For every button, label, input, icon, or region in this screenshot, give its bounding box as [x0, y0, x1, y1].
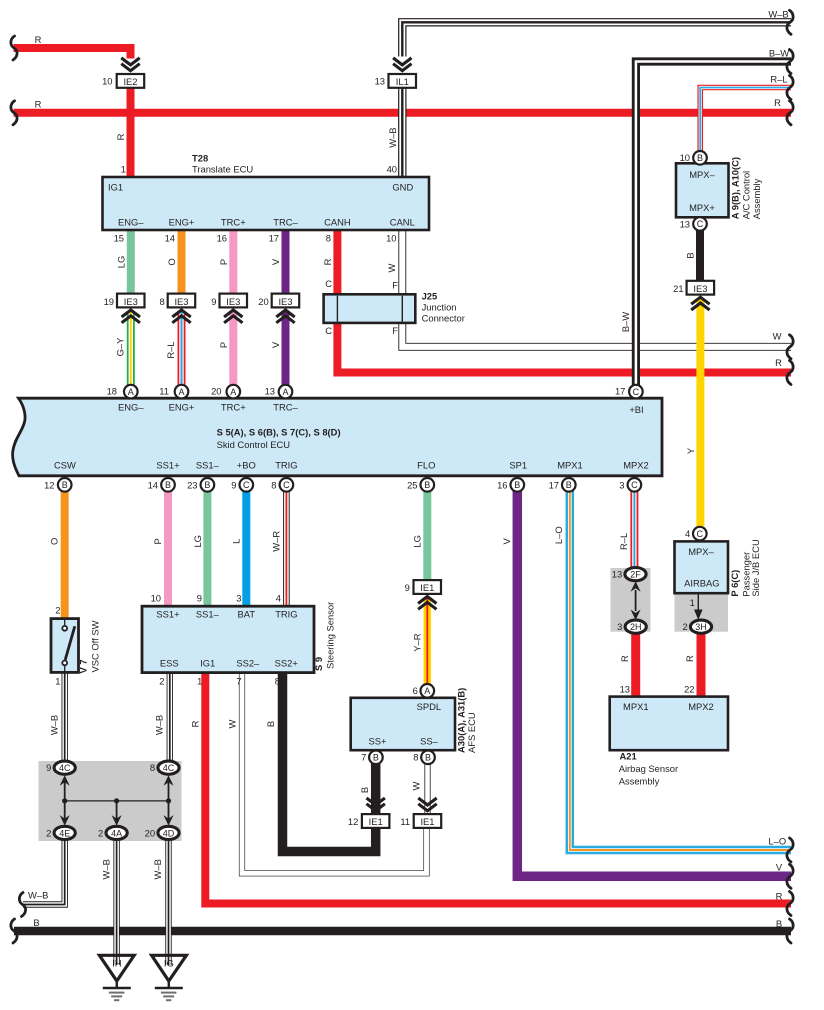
svg-text:9: 9 — [197, 593, 202, 604]
svg-text:SS–: SS– — [420, 735, 439, 746]
svg-text:9: 9 — [211, 296, 216, 307]
svg-text:R: R — [684, 655, 695, 662]
svg-text:W–B: W–B — [152, 859, 163, 879]
svg-text:Junction: Junction — [422, 302, 457, 313]
svg-text:Side J/B ECU: Side J/B ECU — [750, 539, 761, 597]
svg-text:11: 11 — [400, 816, 410, 827]
svg-text:C: C — [697, 219, 704, 229]
svg-text:L–O: L–O — [553, 526, 564, 544]
svg-text:MPX+: MPX+ — [689, 202, 715, 213]
svg-text:B: B — [697, 153, 703, 163]
svg-text:10: 10 — [386, 233, 396, 244]
svg-text:7: 7 — [236, 676, 241, 687]
svg-text:IE3: IE3 — [693, 283, 707, 294]
svg-text:MPX1: MPX1 — [623, 701, 649, 712]
svg-text:R: R — [775, 357, 782, 368]
svg-text:B: B — [33, 917, 39, 928]
svg-text:J25: J25 — [422, 291, 438, 302]
svg-text:1: 1 — [690, 597, 695, 608]
svg-text:8: 8 — [150, 762, 155, 773]
svg-text:V: V — [270, 341, 281, 348]
svg-text:IE2: IE2 — [123, 76, 137, 87]
svg-text:W: W — [227, 719, 238, 728]
svg-text:8: 8 — [326, 233, 331, 244]
svg-text:20: 20 — [145, 827, 155, 838]
svg-text:B: B — [359, 787, 370, 793]
svg-text:IE3: IE3 — [174, 296, 188, 307]
svg-text:MPX–: MPX– — [689, 169, 715, 180]
svg-text:13: 13 — [612, 568, 622, 579]
svg-text:21: 21 — [673, 283, 683, 294]
svg-text:9: 9 — [231, 479, 236, 490]
svg-text:Assembly: Assembly — [751, 178, 762, 219]
svg-text:3: 3 — [236, 593, 241, 604]
svg-text:BAT: BAT — [238, 609, 256, 620]
svg-text:T28: T28 — [192, 153, 208, 164]
svg-text:IE3: IE3 — [226, 296, 240, 307]
svg-text:4E: 4E — [59, 828, 70, 838]
svg-text:P 6(C): P 6(C) — [729, 570, 740, 597]
svg-text:R: R — [190, 720, 201, 727]
svg-text:8: 8 — [271, 479, 276, 490]
svg-text:2: 2 — [682, 621, 687, 632]
svg-text:P: P — [152, 538, 163, 544]
svg-text:A: A — [230, 387, 236, 397]
svg-text:IH: IH — [112, 958, 121, 969]
svg-text:15: 15 — [114, 233, 124, 244]
svg-text:4D: 4D — [163, 828, 175, 838]
svg-text:22: 22 — [684, 683, 694, 694]
svg-text:SS1+: SS1+ — [156, 609, 180, 620]
svg-text:Steering Sensor: Steering Sensor — [324, 602, 335, 669]
svg-text:GND: GND — [392, 182, 413, 193]
svg-text:6: 6 — [413, 685, 418, 696]
svg-text:IG1: IG1 — [200, 658, 215, 669]
svg-text:IG: IG — [164, 958, 174, 969]
svg-text:B: B — [204, 480, 210, 490]
svg-text:B: B — [265, 721, 276, 727]
svg-text:V: V — [776, 861, 783, 872]
svg-text:IE3: IE3 — [124, 296, 138, 307]
svg-text:4C: 4C — [163, 763, 175, 773]
svg-text:SS1+: SS1+ — [156, 460, 180, 471]
svg-text:LG: LG — [115, 256, 126, 269]
svg-text:TRC–: TRC– — [273, 217, 298, 228]
svg-text:R–L: R–L — [770, 74, 787, 85]
svg-text:12: 12 — [44, 479, 54, 490]
svg-text:3H: 3H — [695, 622, 707, 632]
svg-text:VSC Off SW: VSC Off SW — [89, 620, 100, 672]
svg-text:40: 40 — [387, 164, 397, 175]
svg-text:3: 3 — [619, 479, 624, 490]
svg-text:10: 10 — [102, 76, 112, 87]
svg-text:B: B — [373, 753, 379, 763]
svg-text:Translate ECU: Translate ECU — [192, 164, 253, 175]
svg-text:A/C Control: A/C Control — [740, 171, 751, 219]
svg-text:B: B — [424, 480, 430, 490]
svg-text:2: 2 — [98, 827, 103, 838]
svg-text:R: R — [774, 97, 781, 108]
svg-text:1: 1 — [121, 164, 126, 175]
svg-text:Y: Y — [685, 447, 696, 454]
svg-text:ENG+: ENG+ — [169, 217, 195, 228]
svg-text:SP1: SP1 — [509, 460, 527, 471]
svg-text:CSW: CSW — [54, 460, 76, 471]
svg-text:V: V — [501, 537, 512, 544]
svg-text:W–B: W–B — [387, 127, 398, 147]
svg-text:AFS ECU: AFS ECU — [466, 712, 477, 753]
svg-text:W: W — [773, 331, 782, 342]
svg-text:8: 8 — [275, 676, 280, 687]
svg-text:4A: 4A — [111, 828, 122, 838]
svg-text:W–B: W–B — [100, 859, 111, 879]
svg-text:A: A — [424, 686, 430, 696]
svg-text:C: C — [633, 387, 640, 397]
svg-text:TRC–: TRC– — [273, 402, 298, 413]
svg-text:R: R — [35, 34, 42, 45]
svg-text:C: C — [325, 325, 332, 336]
svg-text:R: R — [322, 258, 333, 265]
svg-text:S 5(A), S 6(B), S 7(C), S 8(D): S 5(A), S 6(B), S 7(C), S 8(D) — [217, 427, 341, 438]
svg-text:Connector: Connector — [422, 313, 465, 324]
svg-text:A: A — [128, 387, 134, 397]
svg-text:L–O: L–O — [768, 836, 786, 847]
svg-text:V: V — [270, 258, 281, 265]
svg-text:C: C — [243, 480, 250, 490]
svg-text:B: B — [62, 480, 68, 490]
svg-text:B: B — [165, 480, 171, 490]
svg-text:A 9(B), A10(C): A 9(B), A10(C) — [730, 157, 741, 219]
svg-text:10: 10 — [151, 593, 161, 604]
svg-text:B: B — [776, 918, 782, 929]
svg-text:MPX2: MPX2 — [623, 460, 649, 471]
svg-text:R–L: R–L — [165, 341, 176, 358]
svg-text:A: A — [178, 387, 184, 397]
svg-text:MPX1: MPX1 — [557, 460, 583, 471]
svg-text:W–B: W–B — [49, 715, 60, 735]
svg-text:S 9: S 9 — [313, 657, 324, 671]
svg-text:W: W — [386, 263, 397, 272]
svg-text:LG: LG — [411, 535, 422, 548]
svg-text:13: 13 — [265, 386, 275, 397]
svg-text:+BO: +BO — [237, 460, 256, 471]
svg-text:Skid Control ECU: Skid Control ECU — [217, 439, 291, 450]
svg-text:TRC+: TRC+ — [221, 217, 246, 228]
svg-text:LG: LG — [192, 535, 203, 548]
svg-text:2H: 2H — [630, 622, 642, 632]
svg-text:C: C — [325, 278, 332, 289]
svg-text:8: 8 — [159, 296, 164, 307]
svg-text:20: 20 — [211, 386, 221, 397]
svg-text:P: P — [218, 259, 229, 265]
svg-text:TRIG: TRIG — [275, 609, 297, 620]
svg-text:B: B — [566, 480, 572, 490]
svg-text:CANH: CANH — [324, 217, 351, 228]
svg-text:2: 2 — [159, 676, 164, 687]
svg-text:R–L: R–L — [618, 533, 629, 550]
svg-text:A30(A), A31(B): A30(A), A31(B) — [455, 688, 466, 753]
svg-text:23: 23 — [187, 479, 197, 490]
svg-text:C: C — [631, 480, 638, 490]
svg-text:SS2–: SS2– — [236, 658, 260, 669]
svg-text:13: 13 — [375, 76, 385, 87]
svg-text:TRIG: TRIG — [275, 460, 297, 471]
svg-text:4C: 4C — [59, 763, 71, 773]
svg-text:B–W: B–W — [620, 312, 631, 332]
svg-text:1: 1 — [55, 676, 60, 687]
svg-text:O: O — [166, 258, 177, 265]
svg-text:TRC+: TRC+ — [221, 402, 246, 413]
svg-text:A21: A21 — [620, 751, 637, 762]
svg-text:2: 2 — [46, 827, 51, 838]
svg-text:AIRBAG: AIRBAG — [684, 577, 719, 588]
svg-text:3: 3 — [617, 621, 622, 632]
svg-text:17: 17 — [549, 479, 559, 490]
svg-text:ESS: ESS — [160, 658, 179, 669]
svg-text:IE1: IE1 — [420, 816, 434, 827]
svg-text:2: 2 — [55, 605, 60, 616]
svg-text:W–B: W–B — [768, 9, 788, 20]
svg-text:10: 10 — [680, 152, 690, 163]
svg-text:4: 4 — [685, 528, 690, 539]
svg-text:7: 7 — [361, 752, 366, 763]
svg-text:FLO: FLO — [417, 460, 435, 471]
svg-text:IE1: IE1 — [420, 582, 434, 593]
svg-text:SS2+: SS2+ — [275, 658, 299, 669]
svg-text:W: W — [410, 781, 421, 790]
svg-text:W–B: W–B — [28, 890, 48, 901]
svg-text:R: R — [35, 99, 42, 110]
svg-text:2F: 2F — [630, 569, 641, 579]
svg-text:R: R — [776, 890, 783, 901]
svg-text:B: B — [685, 252, 696, 258]
svg-text:B: B — [425, 753, 431, 763]
svg-text:13: 13 — [680, 218, 690, 229]
svg-text:Airbag Sensor: Airbag Sensor — [619, 763, 678, 774]
svg-text:14: 14 — [165, 233, 175, 244]
svg-text:ENG–: ENG– — [118, 402, 144, 413]
svg-text:G–Y: G–Y — [114, 337, 125, 357]
svg-text:+BI: +BI — [629, 404, 643, 415]
svg-text:F: F — [392, 280, 398, 291]
svg-text:MPX–: MPX– — [688, 546, 714, 557]
svg-text:16: 16 — [497, 479, 507, 490]
svg-text:IL1: IL1 — [396, 76, 409, 87]
svg-text:L: L — [230, 539, 241, 544]
svg-text:17: 17 — [269, 233, 279, 244]
svg-text:13: 13 — [620, 683, 630, 694]
svg-text:9: 9 — [405, 582, 410, 593]
svg-text:F: F — [392, 325, 398, 336]
svg-text:B: B — [514, 480, 520, 490]
svg-text:25: 25 — [407, 479, 417, 490]
svg-text:ENG–: ENG– — [118, 217, 144, 228]
svg-text:SS1–: SS1– — [196, 609, 220, 620]
svg-text:V 7: V 7 — [78, 659, 89, 673]
svg-text:P: P — [218, 342, 229, 348]
svg-text:SPDL: SPDL — [417, 701, 442, 712]
svg-text:1: 1 — [197, 676, 202, 687]
svg-text:11: 11 — [159, 386, 169, 397]
svg-text:17: 17 — [615, 386, 625, 397]
svg-text:IE3: IE3 — [278, 296, 292, 307]
svg-text:SS+: SS+ — [369, 735, 388, 746]
svg-text:SS1–: SS1– — [196, 460, 220, 471]
svg-text:MPX2: MPX2 — [688, 701, 714, 712]
svg-text:B–W: B–W — [769, 48, 789, 59]
svg-text:C: C — [697, 529, 704, 539]
svg-text:14: 14 — [148, 479, 158, 490]
svg-text:Y–R: Y–R — [412, 633, 423, 651]
svg-text:W–R: W–R — [270, 531, 281, 552]
svg-text:18: 18 — [107, 386, 117, 397]
svg-text:A: A — [282, 387, 288, 397]
svg-text:W–B: W–B — [153, 715, 164, 735]
svg-text:R: R — [115, 133, 126, 140]
svg-text:9: 9 — [46, 762, 51, 773]
svg-text:20: 20 — [258, 296, 268, 307]
svg-text:CANL: CANL — [390, 217, 415, 228]
svg-text:12: 12 — [348, 816, 358, 827]
svg-text:ENG+: ENG+ — [169, 402, 195, 413]
svg-text:8: 8 — [413, 752, 418, 763]
svg-text:16: 16 — [217, 233, 227, 244]
svg-text:19: 19 — [104, 296, 114, 307]
svg-text:Assembly: Assembly — [619, 775, 660, 786]
svg-text:IE1: IE1 — [369, 816, 383, 827]
svg-text:4: 4 — [276, 593, 281, 604]
svg-text:R: R — [619, 655, 630, 662]
svg-text:O: O — [49, 538, 60, 545]
svg-text:IG1: IG1 — [108, 182, 123, 193]
svg-text:C: C — [283, 480, 290, 490]
